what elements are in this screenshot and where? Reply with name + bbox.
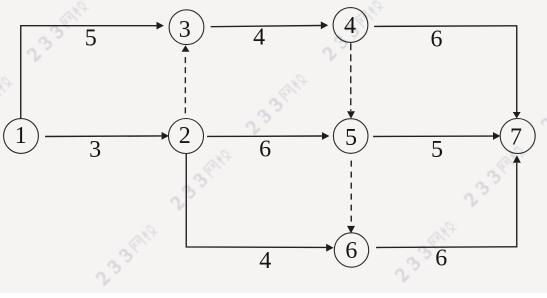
svg-text:6: 6 [435, 246, 447, 272]
svg-text:5: 5 [345, 125, 357, 151]
svg-text:2: 2 [179, 123, 191, 149]
svg-text:5: 5 [85, 25, 97, 51]
svg-text:7: 7 [510, 124, 522, 150]
svg-text:6: 6 [259, 137, 271, 163]
svg-text:1: 1 [15, 123, 27, 149]
svg-text:4: 4 [344, 13, 356, 39]
svg-text:4: 4 [253, 24, 265, 50]
svg-text:3: 3 [89, 137, 101, 163]
svg-text:6: 6 [431, 26, 443, 52]
svg-text:4: 4 [259, 248, 271, 274]
svg-text:3: 3 [179, 17, 191, 43]
svg-text:5: 5 [431, 137, 443, 163]
svg-text:6: 6 [345, 238, 357, 264]
